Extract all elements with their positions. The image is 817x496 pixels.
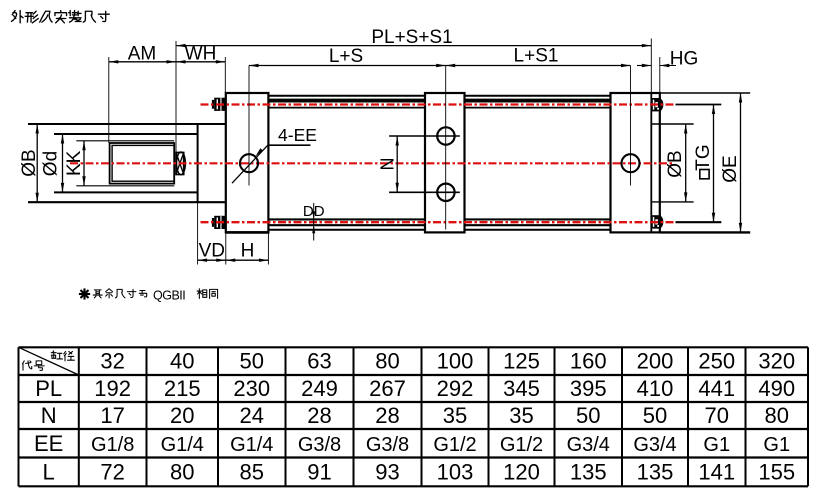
pin extension line top [389,135,460,137]
svg-text:35: 35 [509,403,533,428]
thread line KK top [76,140,174,142]
svg-text:141: 141 [698,459,735,484]
dimension PL+S+S1 [176,27,651,48]
top tie rod centerline (red) [201,103,676,105]
svg-text:EE: EE [34,431,63,456]
table header 缸径 [51,351,62,359]
table row PL [35,376,795,401]
svg-text:TG: TG [693,144,714,170]
svg-text:40: 40 [170,349,194,374]
top tie rod lower edge [268,107,425,109]
svg-text:410: 410 [637,376,674,401]
extension lines TG [676,104,722,106]
svg-text:160: 160 [570,349,607,374]
svg-text:192: 192 [94,376,131,401]
svg-text:249: 249 [301,376,338,401]
table row L [43,459,796,484]
svg-text:50: 50 [240,349,264,374]
table header row values [100,349,795,374]
svg-text:135: 135 [570,459,607,484]
svg-text:267: 267 [369,376,406,401]
svg-text:G3/8: G3/8 [298,434,341,456]
svg-text:G1: G1 [763,434,790,456]
svg-text:20: 20 [170,403,194,428]
tie rod nut top-right [651,98,663,111]
svg-text:125: 125 [503,349,540,374]
svg-text:120: 120 [503,459,540,484]
dimension HG [637,39,698,94]
dimension KK [64,141,86,186]
svg-text:G3/8: G3/8 [366,434,409,456]
svg-text:G1/4: G1/4 [161,434,204,456]
port EE centerline [248,66,250,186]
svg-text:17: 17 [100,403,124,428]
port EE right centerline [630,66,632,186]
svg-text:72: 72 [100,459,124,484]
dimension WH [176,41,225,153]
svg-text:G1/4: G1/4 [230,434,273,456]
note ※其余尺寸与 QGBII 相同 [79,288,218,302]
svg-text:345: 345 [503,376,540,401]
dimension ØB left [19,124,40,202]
dimension ØE [720,93,742,232]
piston rod outer (ØB) top edge [28,123,226,125]
bottom tie rod upper edge [268,218,425,220]
svg-text:91: 91 [307,459,331,484]
svg-text:G1/8: G1/8 [91,434,134,456]
piston rod outer (ØB) bottom edge [28,201,226,203]
svg-text:PL+S+S1: PL+S+S1 [371,27,452,48]
svg-text:Ød: Ød [41,151,62,176]
svg-text:50: 50 [576,403,600,428]
trunnion centerline [445,66,447,230]
left head bottom edge thick [226,231,269,234]
table grid [19,347,809,486]
svg-text:G3/4: G3/4 [633,434,676,456]
svg-text:103: 103 [437,459,474,484]
dimension L+S [249,46,446,67]
svg-text:L: L [43,459,55,484]
bottom tie rod lower edge [268,224,425,226]
svg-text:G1/2: G1/2 [500,434,543,456]
left head plate [226,93,269,232]
right head plate [611,93,660,232]
trunnion pin circle bottom [437,184,454,201]
rod eye block (bowtie) [176,153,184,175]
dimension ØB right [665,124,687,202]
svg-text:490: 490 [758,376,795,401]
svg-text:93: 93 [375,459,399,484]
port circle EE right [622,154,640,172]
svg-text:200: 200 [637,349,674,374]
svg-text:28: 28 [375,403,399,428]
svg-text:G1/2: G1/2 [433,434,476,456]
svg-text:N: N [378,158,398,171]
svg-text:N: N [41,403,57,428]
svg-text:4-EE: 4-EE [278,125,317,145]
svg-text:PL: PL [35,376,62,401]
rod sleeve bottom edge (Ød) [54,191,198,193]
svg-text:G3/4: G3/4 [567,434,610,456]
dimension Ød [41,134,65,192]
rod sleeve right face [197,124,199,202]
svg-text:L+S: L+S [329,46,363,67]
svg-text:L+S1: L+S1 [514,46,559,67]
thread KK inner rectangle [112,145,174,181]
dimension N [378,136,399,192]
svg-text:215: 215 [164,376,201,401]
table row N [41,403,789,428]
title 外形及安装尺寸 (outline and mounting dimensions) [11,11,23,23]
svg-text:80: 80 [170,459,194,484]
tie rod nut bottom-left [212,216,226,229]
svg-text:50: 50 [643,403,667,428]
svg-text:100: 100 [437,349,474,374]
svg-text:32: 32 [100,349,124,374]
svg-text:ØB: ØB [665,150,686,177]
svg-text:HG: HG [670,49,699,70]
svg-text:VD: VD [199,241,225,262]
trunnion pin circle top [437,127,454,144]
table row EE [34,431,790,456]
svg-text:28: 28 [307,403,331,428]
dimension AM [109,43,176,143]
dimension DD [303,203,325,241]
table header diagonal [19,347,79,375]
svg-text:85: 85 [240,459,264,484]
svg-text:ØB: ØB [19,149,40,176]
svg-text:ØE: ØE [720,155,741,182]
svg-text:292: 292 [437,376,474,401]
svg-text:80: 80 [765,403,789,428]
svg-text:320: 320 [758,349,795,374]
bottom tie rod centerline (red) [201,221,676,223]
table header 代号 [22,361,31,370]
extension lines ØB right [652,123,694,125]
svg-text:80: 80 [375,349,399,374]
right head inner face line [650,93,652,232]
svg-text:441: 441 [698,376,735,401]
svg-text:H: H [241,241,255,262]
thread line KK bottom [76,185,174,187]
svg-text:QGBII: QGBII [153,288,185,302]
svg-text:250: 250 [698,349,735,374]
svg-text:WH: WH [185,43,217,64]
dimension VD [198,202,226,264]
svg-text:155: 155 [758,459,795,484]
port circle EE left [240,154,258,172]
thread KK outer rectangle [110,143,175,184]
cylinder tube top edge [268,95,425,97]
svg-text:135: 135 [637,459,674,484]
svg-text:63: 63 [307,349,331,374]
dimension □TG [693,105,715,223]
dimension L+S1 [446,46,631,68]
rod sleeve top edge (Ød) [54,133,198,135]
svg-text:35: 35 [443,403,467,428]
svg-text:AM: AM [128,43,157,64]
main centerline (red) [70,162,672,164]
svg-text:70: 70 [705,403,729,428]
extension lines ØE [660,92,750,94]
svg-text:G1: G1 [703,434,730,456]
tie rod nut top-left [212,98,226,111]
svg-text:24: 24 [240,403,264,428]
dimension H [226,232,269,264]
leader 4-EE [232,125,317,183]
svg-text:395: 395 [570,376,607,401]
middle trunnion plate [425,93,465,232]
pin extension line bottom [389,191,460,193]
svg-text:230: 230 [233,376,270,401]
tie rod nut bottom-right [651,215,663,228]
top tie rod upper edge band [268,99,425,103]
cylinder tube bottom edge [268,229,425,231]
